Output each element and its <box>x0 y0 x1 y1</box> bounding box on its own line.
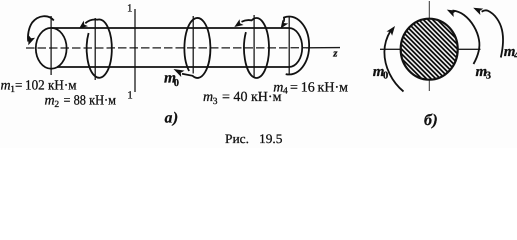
torque arrow m1 <box>28 16 54 41</box>
torque arrow m2 <box>85 19 112 77</box>
arrow m0 (part b) <box>384 31 403 92</box>
svg-text:m: m <box>203 90 213 105</box>
svg-text:3: 3 <box>213 97 218 107</box>
section line at m2 <box>94 18 96 80</box>
torque arrow m3 <box>242 18 270 78</box>
shaft right end cap arc <box>289 28 302 67</box>
section line at m0 <box>192 16 194 74</box>
svg-text:= 88 кН·м: = 88 кН·м <box>64 93 117 108</box>
svg-text:Рис. 19.5: Рис. 19.5 <box>225 131 283 146</box>
svg-text:2: 2 <box>54 100 59 110</box>
arrow m3 (part b) <box>453 11 480 65</box>
svg-text:0: 0 <box>174 78 179 89</box>
section line 1-1 <box>134 9 136 92</box>
section line at m3 <box>253 15 255 77</box>
shaft left end face ellipse <box>36 28 67 69</box>
part b horizontal centerline <box>380 48 481 50</box>
torque arrow m0 <box>182 18 210 78</box>
shaft body outline top edge <box>52 27 289 29</box>
shaft body outline bottom edge <box>57 66 289 68</box>
svg-text:= 16 кН·м: = 16 кН·м <box>290 81 348 96</box>
dash axis centerline z <box>26 47 306 49</box>
torque arrow m4 <box>284 17 309 75</box>
hatched cross-section circle <box>401 19 458 80</box>
svg-text:4: 4 <box>283 86 288 96</box>
svg-text:б): б) <box>424 112 438 129</box>
svg-text:z: z <box>332 48 338 60</box>
svg-text:m: m <box>1 79 11 94</box>
svg-text:а): а) <box>165 109 179 126</box>
svg-text:0: 0 <box>383 71 388 82</box>
section line at m1 <box>50 16 52 75</box>
arrow m4 (part b) <box>482 10 503 57</box>
section line at m4 <box>288 17 290 75</box>
part b vertical centerline <box>428 1 430 91</box>
svg-text:m: m <box>45 94 55 109</box>
svg-text:3: 3 <box>486 70 491 81</box>
svg-text:m: m <box>273 81 283 96</box>
svg-text:1: 1 <box>127 2 133 14</box>
svg-text:1: 1 <box>127 89 133 101</box>
svg-text:= 102 кН·м: = 102 кН·м <box>15 79 77 94</box>
